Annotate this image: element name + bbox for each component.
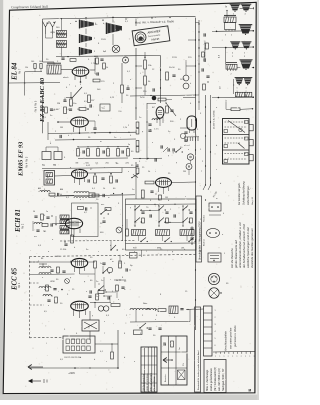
speaker 1a <box>230 3 241 5</box>
box section line 1 <box>223 134 250 136</box>
wire mini t <box>61 19 63 31</box>
svg-text:a: a <box>215 356 216 358</box>
dashed shield line 2 <box>30 255 197 257</box>
transformer pins spk1 <box>225 30 227 32</box>
svg-text:seit JWF 5806 G (V.): seit JWF 5806 G (V.) <box>218 368 221 391</box>
parts below y158 <box>135 162 136 163</box>
svg-text:3: 3 <box>225 35 226 37</box>
resistor stack x137 <box>136 122 139 128</box>
socket circle 1 <box>187 154 193 160</box>
svg-text:2: 2 <box>231 74 232 76</box>
svg-text:EL 84: EL 84 <box>11 62 19 81</box>
svg-text:4: 4 <box>246 88 247 90</box>
tube V4 EF93 <box>72 169 88 178</box>
FM cluster 2 <box>39 287 51 289</box>
fm parts right 2 <box>125 268 127 271</box>
wire group3 bottom <box>218 96 253 98</box>
wire speaker top <box>112 17 114 22</box>
screen resistor <box>103 63 106 69</box>
bus band top <box>126 203 197 206</box>
wire y158 <box>133 157 162 159</box>
wire selector <box>95 343 118 345</box>
extra wire stubs right <box>188 39 196 41</box>
wire trafo col <box>85 29 87 35</box>
junction mains <box>74 367 76 369</box>
dashed stub 3 <box>30 304 45 306</box>
svg-text:c: c <box>185 196 186 198</box>
fm switch a <box>102 272 103 273</box>
band switch box outline <box>126 199 197 250</box>
speaker 1b <box>241 3 252 5</box>
tube V2 ECH81 <box>65 218 82 228</box>
svg-text:sämtliche Spannungen sind in d: sämtliche Spannungen sind in den <box>246 226 250 268</box>
svg-text:Bezeichn.: Bezeichn. <box>165 373 167 382</box>
svg-text:Rö 6 Rö 5: Rö 6 Rö 5 <box>35 100 38 112</box>
speaker 2b <box>241 41 251 43</box>
trafo sym 2 <box>79 34 81 43</box>
pin tick row <box>213 350 255 353</box>
svg-text:c: c <box>155 17 156 19</box>
wire y97 right <box>183 96 196 98</box>
wire group2 top <box>226 46 254 49</box>
band switch column 1 <box>134 209 135 210</box>
wire antenna feed <box>45 34 47 38</box>
connector round 5 <box>209 288 219 298</box>
svg-text:UKW: UKW <box>50 281 55 283</box>
svg-text:3: 3 <box>215 324 216 326</box>
svg-text:gilt die Skalenwerte auf: gilt die Skalenwerte auf <box>234 240 238 268</box>
svg-text:Schaltung Ausführung: Schaltung Ausführung <box>243 181 246 205</box>
svg-text:TB: TB <box>53 165 56 167</box>
tube V1a ECC85 <box>71 258 87 267</box>
FM coil cluster <box>39 267 51 269</box>
components right ECC85 <box>94 261 97 268</box>
resistor row top wire <box>78 145 128 148</box>
svg-text:UKW 87-100 MHz: UKW 87-100 MHz <box>147 373 149 391</box>
dashed stub 1 <box>30 261 40 263</box>
svg-text:osz: osz <box>63 221 66 223</box>
svg-text:a: a <box>224 356 225 358</box>
svg-text:1k: 1k <box>106 67 108 69</box>
svg-text:1M: 1M <box>75 163 78 165</box>
wire to tube V7 <box>61 69 72 71</box>
power transformer box <box>82 320 99 331</box>
svg-text:Netz: Netz <box>143 302 147 305</box>
vertical wire pair <box>205 95 207 185</box>
svg-text:50: 50 <box>33 211 35 213</box>
tube V7 EL84 <box>72 67 89 77</box>
FM coil frame <box>39 263 47 265</box>
extra dots band <box>149 210 150 211</box>
svg-text:100: 100 <box>39 61 42 63</box>
resistor R6 <box>64 107 67 114</box>
left parts ECH row c <box>36 229 39 231</box>
resistor R4 <box>70 99 73 106</box>
svg-text:3: 3 <box>200 251 201 253</box>
switch group mid <box>160 145 162 148</box>
svg-text:TA: TA <box>42 164 45 167</box>
fm wire down <box>109 296 111 302</box>
svg-text:s: s <box>128 171 129 173</box>
svg-text:270V: 270V <box>172 57 177 59</box>
svg-text:100: 100 <box>31 61 34 63</box>
trafo sym 1 <box>79 20 81 29</box>
svg-text:a: a <box>249 356 250 358</box>
resistor x127 <box>126 229 129 236</box>
tuning eye EM85 <box>156 178 172 188</box>
parts left EABC above <box>45 107 48 113</box>
speaker 3a <box>235 77 244 79</box>
svg-text:MW 510-1620 kHz: MW 510-1620 kHz <box>151 373 153 391</box>
electrolytic can <box>187 116 197 130</box>
transformer spk1 frame <box>225 23 236 30</box>
svg-text:Compliments Eckhard Null: Compliments Eckhard Null <box>11 5 48 10</box>
bus band bottom <box>126 242 197 245</box>
wire to bus right <box>196 21 200 23</box>
dots on wire pair <box>205 106 206 107</box>
trimmer fm <box>65 279 70 284</box>
dashed bottom <box>30 337 64 339</box>
FM dipole antenna <box>43 22 56 35</box>
small box above table <box>134 330 143 335</box>
components right of EF93 <box>94 176 97 183</box>
AF bus <box>48 132 136 133</box>
wire ecc85 h <box>30 273 75 276</box>
band coil 1 <box>132 230 146 236</box>
wire into ECH81 left <box>52 223 66 225</box>
transformer spk3 b <box>245 92 252 97</box>
resistor R5 <box>121 85 124 93</box>
tube pins EABC <box>73 127 75 132</box>
wire grid EL84 <box>70 92 72 98</box>
wire into box <box>226 108 231 110</box>
wire ecc85 g <box>30 261 72 263</box>
speaker switch box <box>223 119 250 165</box>
svg-text:Ersatzteil-Nr. techn. jeweils: Ersatzteil-Nr. techn. jeweils nächste Au… <box>197 350 200 390</box>
svg-text:a: a <box>245 356 246 358</box>
svg-text:AM: AM <box>38 187 41 190</box>
wire left stub <box>47 122 49 140</box>
transformer spk3 a <box>235 92 244 97</box>
resistor near x118 <box>111 352 114 359</box>
tie wires band switch <box>140 209 159 211</box>
svg-text:Rö 2: Rö 2 <box>22 223 25 229</box>
small parts right top <box>206 75 209 77</box>
wire above V7 <box>43 61 55 63</box>
svg-text:5: 5 <box>224 253 225 255</box>
socket pin strip <box>184 137 186 141</box>
wire v x95 <box>94 274 96 288</box>
svg-text:z: z <box>104 321 105 323</box>
svg-text:2M: 2M <box>57 103 60 105</box>
open arrow mains <box>28 365 32 368</box>
cap mid ECH81 <box>102 220 105 222</box>
svg-text:Wellenbereiche: Wellenbereiche <box>142 373 145 391</box>
wire left box edge <box>42 19 44 62</box>
wire anode EF93 <box>88 172 123 174</box>
ladder table <box>204 306 213 356</box>
volume control arrow <box>72 87 82 98</box>
svg-text:(0.430 C.A. 3x058): (0.430 C.A. 3x058) <box>213 110 216 129</box>
parts on y56 right <box>96 58 99 64</box>
tube pins ECC85a <box>74 267 76 272</box>
components right top <box>166 72 169 80</box>
resistor R3 <box>88 95 91 103</box>
band coil 3 <box>180 230 194 236</box>
wellenbereiche table <box>141 347 157 392</box>
svg-text:a: a <box>236 356 237 358</box>
wire spk1 top <box>240 7 254 9</box>
dots chain 199 <box>198 55 199 56</box>
small box 70 <box>100 104 110 111</box>
wire under power <box>130 321 190 324</box>
svg-text:gemessen n. Werte: gemessen n. Werte <box>234 325 237 347</box>
resistor chain top <box>144 60 147 69</box>
left parts ECH row b <box>34 223 42 224</box>
svg-text:2: 2 <box>232 56 233 58</box>
wellenbereiche columns <box>144 347 146 392</box>
svg-text:4: 4 <box>232 53 233 55</box>
svg-text:osc: osc <box>101 204 104 206</box>
svg-text:z: z <box>150 129 151 131</box>
svg-text:1: 1 <box>215 310 216 312</box>
transformer spk2 <box>226 64 237 69</box>
svg-text:Umschaltplatte f. Netzspannung: Umschaltplatte f. Netzspannung 220V <box>198 221 201 260</box>
parts above ECH81 <box>77 207 83 210</box>
svg-text:5M: 5M <box>60 127 63 129</box>
svg-text:absch: absch <box>63 77 69 79</box>
svg-text:5: 5 <box>237 88 238 90</box>
speaker 2a <box>230 41 240 43</box>
parts east mid <box>180 133 185 138</box>
band switch column 3 <box>182 209 183 210</box>
wire group1 <box>217 30 254 33</box>
svg-text:Zustände des Gerätes gemessen: Zustände des Gerätes gemessen <box>250 228 254 269</box>
svg-text:6: 6 <box>215 345 216 347</box>
tone jack boxes <box>42 152 51 160</box>
svg-text:~220V: ~220V <box>68 372 75 375</box>
svg-text:Stecker: Stecker <box>203 215 206 222</box>
svg-text:5n: 5n <box>128 144 130 146</box>
wire sockets <box>190 160 192 163</box>
electrolytic cans <box>183 75 189 81</box>
output transformer 2 <box>47 65 61 74</box>
component on bus <box>89 193 95 197</box>
dashed shield line 1 <box>60 240 135 243</box>
wire x136 low <box>135 167 137 199</box>
mini transformer 1 <box>57 31 67 34</box>
svg-text:2: 2 <box>200 235 201 237</box>
wire chain top <box>144 52 146 60</box>
legend symbols <box>163 342 165 345</box>
wire EM85 right <box>172 181 196 184</box>
vertical wire x122 <box>121 194 123 242</box>
connector plug 3 <box>208 253 221 262</box>
wire osc row <box>60 194 74 196</box>
svg-text:Rö 1: Rö 1 <box>18 282 21 288</box>
svg-text:4: 4 <box>223 213 224 215</box>
svg-text:3: 3 <box>244 56 245 58</box>
connector plug 1 <box>209 203 221 211</box>
can pins <box>189 130 191 133</box>
heater winding <box>152 119 160 120</box>
bottom note box <box>204 360 226 393</box>
wire spine right <box>212 30 217 32</box>
resistor pair above <box>34 64 36 69</box>
resistor R2 <box>93 79 100 82</box>
svg-text:осc: осc <box>34 236 37 238</box>
tube V5 EABC80 <box>71 117 89 127</box>
svg-text:5: 5 <box>215 338 216 340</box>
svg-text:a: a <box>219 356 220 358</box>
box tabs <box>249 125 253 131</box>
resistor row R10-R15 <box>77 149 80 157</box>
svg-text:a: a <box>241 356 242 358</box>
svg-text:2: 2 <box>128 125 129 127</box>
svg-text:z: z <box>158 205 159 207</box>
speaker 3b <box>243 77 252 79</box>
junctions AF <box>79 132 81 134</box>
lamp circles <box>98 306 103 311</box>
svg-text:15k: 15k <box>25 67 28 69</box>
svg-text:30k: 30k <box>63 249 66 251</box>
cap on 199 <box>201 68 203 71</box>
capacitor C5 <box>63 99 66 101</box>
components NE of EM85 <box>166 106 169 113</box>
svg-text:a: a <box>228 356 229 358</box>
svg-text:bei Geräten mit gedr.: bei Geräten mit gedr. <box>238 182 241 205</box>
wire mains top <box>90 302 111 304</box>
vertical bus x195 <box>195 18 197 330</box>
switch between dashes <box>110 249 111 250</box>
fm mid parts <box>89 290 91 293</box>
connector socket 2 <box>207 228 220 237</box>
svg-text:(Zweitlautsprecher): (Zweitlautsprecher) <box>204 40 207 62</box>
resistor row bottom wire <box>78 157 128 160</box>
bus 2 <box>55 139 136 140</box>
wire power drop <box>135 310 137 322</box>
IF transformer can 1 <box>44 171 55 186</box>
parts low ecc <box>88 295 91 297</box>
wire x147 <box>146 103 148 160</box>
svg-text:Bauj. 56: Bauj. 56 <box>252 196 254 205</box>
svg-text:50+50: 50+50 <box>169 67 176 69</box>
svg-text:(Nr.) Schaltersicht (B): (Nr.) Schaltersicht (B) <box>214 367 217 391</box>
svg-text:c: c <box>216 169 217 171</box>
svg-text:2: 2 <box>231 35 232 37</box>
wire anode EL84 <box>89 69 95 71</box>
switch lever mid <box>132 174 139 178</box>
voltage selector box <box>63 336 95 353</box>
band coil 2 <box>156 230 170 236</box>
band switch column 2 <box>158 209 159 210</box>
svg-text:1: 1 <box>200 219 201 221</box>
speaker big top <box>106 23 108 35</box>
wire bus y168 <box>42 168 136 169</box>
mains line <box>30 367 118 369</box>
resistor above box <box>231 108 240 111</box>
caps power <box>148 327 151 329</box>
parts right power <box>180 308 183 310</box>
selector contents <box>66 339 69 344</box>
wire x24.7 <box>24 72 26 96</box>
svg-text:T: T <box>88 326 90 330</box>
svg-text:a: a <box>254 356 255 358</box>
EM85 pins <box>158 187 160 192</box>
wire bus y95 <box>130 95 196 96</box>
EM85 small parts below <box>150 190 153 192</box>
svg-text:Buchse: Buchse <box>204 238 206 246</box>
socket circle 2 <box>186 164 192 170</box>
fm bottom parts <box>47 299 50 301</box>
wires transformer <box>89 311 91 320</box>
capacitor C20 <box>152 88 154 91</box>
small caps EF93 <box>87 179 89 182</box>
svg-text:Anschlussdrähte: Anschlussdrähte <box>224 331 228 352</box>
wire spk1 drop <box>226 11 228 18</box>
switch hooks <box>203 185 206 190</box>
label strip bottom <box>195 307 201 392</box>
box sec1 contents <box>225 121 248 123</box>
svg-text:5%: 5% <box>183 363 185 366</box>
wire osc long <box>50 195 135 196</box>
fm parts right <box>116 285 119 291</box>
svg-text:UKW: UKW <box>50 32 55 34</box>
diode wires <box>88 120 95 122</box>
parts left of EZ80 <box>148 123 151 125</box>
transformer spk1 <box>224 17 236 23</box>
tube pins EL84 <box>74 76 76 80</box>
hatched choke <box>169 306 178 314</box>
svg-text:AM: AM <box>60 188 63 191</box>
resistor row junctions <box>77 146 78 147</box>
switch levers bottom row <box>140 241 141 242</box>
box section line 2 <box>223 149 250 151</box>
svg-text:Nachged. NWF., NY: Nachged. NWF., NY <box>222 368 225 391</box>
wellenbereiche row lines <box>141 355 157 357</box>
schematic border frame <box>3 2 256 393</box>
svg-text:Bitte z. Zeichnungs: Bitte z. Zeichnungs <box>206 369 209 391</box>
connector round 4 <box>208 273 219 284</box>
svg-text:110 125 150 220 240: 110 125 150 220 240 <box>64 357 81 359</box>
osc coil rows <box>74 192 89 194</box>
extra parts between <box>205 199 206 200</box>
svg-text:2M: 2M <box>183 171 186 173</box>
extra caps band <box>149 214 151 217</box>
wire jacks <box>45 147 47 152</box>
tube pins ECC85b <box>73 310 75 316</box>
svg-text:1n: 1n <box>46 211 48 213</box>
dial lamp <box>112 45 120 53</box>
resistor above EM85 <box>145 181 154 184</box>
svg-text:Rö 7: Rö 7 <box>19 68 22 74</box>
svg-text:5: 5 <box>244 53 245 55</box>
speaker 1c big <box>239 24 253 26</box>
svg-text:250V: 250V <box>101 39 106 41</box>
svg-text:4: 4 <box>215 331 216 333</box>
wire can to tube <box>55 175 72 178</box>
svg-text:245V: 245V <box>180 79 185 81</box>
svg-text:von unten gesehen: von unten gesehen <box>230 327 233 349</box>
tube pins ECH81 <box>67 229 69 235</box>
wire group3 drop <box>233 79 235 94</box>
svg-text:EM85 EF 93: EM85 EF 93 <box>18 141 25 177</box>
svg-text:M: M <box>249 389 252 393</box>
left parts ECH row a <box>34 215 37 217</box>
connector chain x199 <box>198 23 199 24</box>
wire group2 bottom <box>237 67 240 69</box>
fm switch b <box>98 289 99 290</box>
